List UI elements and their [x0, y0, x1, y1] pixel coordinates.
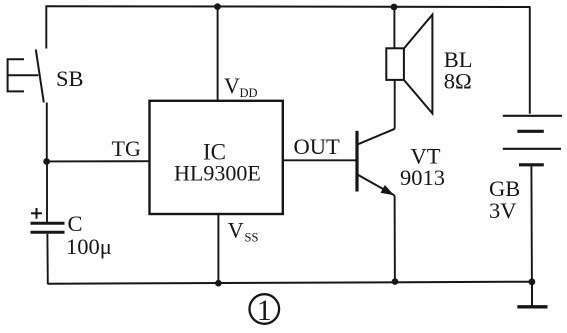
- wire: capacitor to bottom rail: [46, 234, 48, 284]
- transistor VT 9013 NPN: [357, 129, 395, 196]
- svg-text:C: C: [68, 211, 83, 236]
- node: emitter junction dot: [392, 278, 399, 285]
- node A junction dot: [43, 158, 50, 165]
- svg-text:3V: 3V: [489, 198, 517, 223]
- wire: battery to ground node: [530, 166, 533, 282]
- wire: emitter to bottom rail: [394, 195, 396, 282]
- wire: top rail: [46, 5, 531, 8]
- wire: OUT lead: [283, 159, 356, 161]
- wire: right rail top: [529, 7, 531, 114]
- battery GB two cells: [503, 116, 562, 165]
- wire: VDD lead: [217, 7, 219, 101]
- capacitor C polarity plus sign: [31, 208, 42, 219]
- node: VSS junction dot: [215, 280, 222, 287]
- speaker BL: [386, 15, 432, 114]
- svg-text:1: 1: [257, 294, 272, 327]
- wire: VSS lead: [217, 214, 219, 283]
- svg-text:8Ω: 8Ω: [444, 69, 472, 94]
- capacitor C electrolytic plates: [31, 223, 65, 232]
- node: speaker junction dot: [391, 4, 398, 11]
- IC U1 HL9300E box: [150, 101, 283, 214]
- label VSS pin: [228, 217, 259, 244]
- svg-text:V: V: [228, 217, 244, 242]
- svg-text:DD: DD: [240, 86, 258, 100]
- node: VDD junction dot: [214, 3, 221, 10]
- wire: collector to speaker: [394, 80, 396, 129]
- wire: node A to capacitor: [46, 162, 48, 223]
- figure number 1 circled: [249, 294, 279, 327]
- label VDD pin: [224, 73, 258, 100]
- svg-text:SS: SS: [245, 230, 259, 244]
- svg-text:SB: SB: [56, 66, 84, 91]
- wire: TG lead: [47, 160, 150, 162]
- wire: bottom rail: [48, 282, 533, 284]
- svg-text:OUT: OUT: [294, 134, 340, 159]
- svg-text:100μ: 100μ: [66, 234, 112, 259]
- svg-text:9013: 9013: [400, 165, 445, 190]
- svg-text:HL9300E: HL9300E: [174, 161, 261, 186]
- wire: switch top lead: [45, 6, 47, 49]
- wire: switch to node A: [46, 103, 48, 163]
- pushbutton switch SB: [8, 50, 44, 103]
- wire: speaker top lead: [393, 7, 395, 49]
- ground: [517, 282, 547, 307]
- node: ground junction dot: [529, 278, 536, 285]
- svg-text:V: V: [224, 73, 240, 98]
- svg-text:TG: TG: [112, 136, 141, 161]
